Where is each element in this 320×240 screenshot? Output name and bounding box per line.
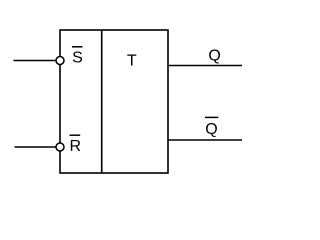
svg-text:Q: Q <box>208 47 220 64</box>
wire output Qbar <box>168 139 242 141</box>
svg-text:R: R <box>70 138 82 155</box>
overline of Qbar <box>205 116 218 118</box>
section divider <box>101 30 103 173</box>
overline of R <box>70 134 81 136</box>
svg-text:T: T <box>127 53 137 70</box>
wire input S <box>14 60 57 62</box>
inversion bubble S input <box>56 57 64 65</box>
overline of S <box>72 46 83 48</box>
wire input R <box>15 146 57 148</box>
wire output Q <box>168 65 242 67</box>
svg-text:Q: Q <box>205 121 217 138</box>
flip-flop U1 body <box>60 30 168 173</box>
svg-text:S: S <box>72 50 83 67</box>
inversion bubble R input <box>56 143 64 151</box>
